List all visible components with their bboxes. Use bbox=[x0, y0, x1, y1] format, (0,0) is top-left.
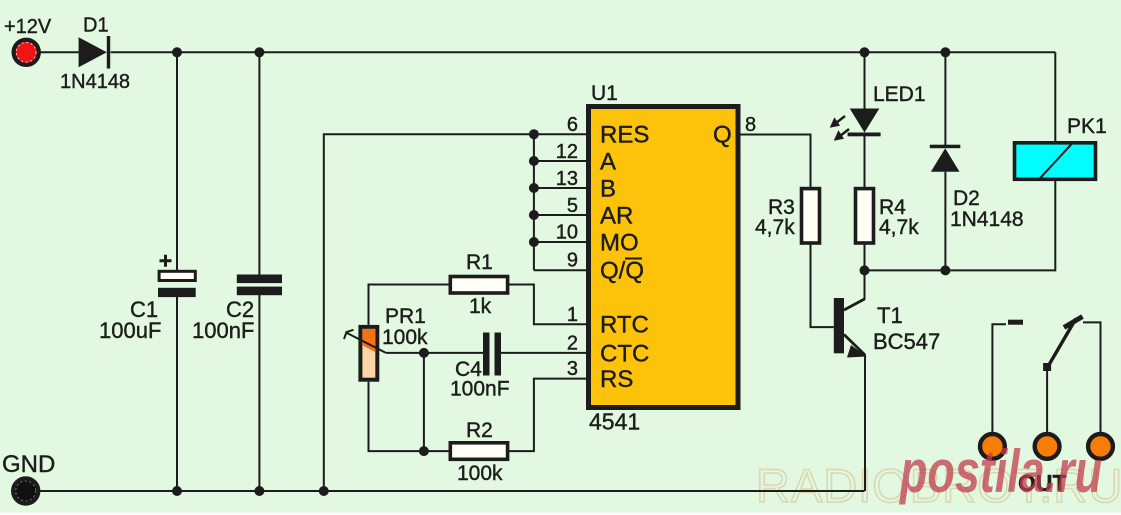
wire emitter bbox=[844, 335, 865, 492]
wire C2 bottom bbox=[258, 295, 260, 491]
resistor R2 bbox=[450, 443, 507, 460]
svg-text:10: 10 bbox=[556, 222, 578, 244]
wire LED to R4 bbox=[864, 136, 866, 189]
wire R4 bottom to node bbox=[864, 245, 866, 271]
resistor R1 bbox=[450, 277, 507, 294]
svg-text:+12V: +12V bbox=[4, 16, 52, 38]
svg-text:LED1: LED1 bbox=[873, 83, 926, 106]
junction node top D2 bbox=[940, 47, 950, 57]
svg-text:1k: 1k bbox=[469, 295, 492, 318]
svg-text:3: 3 bbox=[567, 358, 578, 380]
junction node D2 bottom bbox=[940, 265, 950, 275]
junction node collector bbox=[860, 265, 870, 275]
wire C2 top bbox=[258, 52, 260, 275]
svg-text:D1: D1 bbox=[83, 15, 109, 37]
wire pin13 stub bbox=[534, 187, 586, 189]
transistor T1 bbox=[834, 298, 867, 358]
wire ground rail bbox=[26, 490, 865, 492]
wire collector bbox=[844, 270, 865, 310]
wire left vertical to pin6 bbox=[324, 134, 586, 491]
svg-text:4,7k: 4,7k bbox=[879, 216, 919, 239]
svg-text:A: A bbox=[600, 149, 616, 176]
bottom white strip bbox=[0, 513, 1121, 515]
potentiometer PR1 bbox=[344, 327, 386, 380]
wire D2 top bbox=[944, 52, 946, 145]
wire pin8 to R3 bbox=[741, 135, 811, 189]
resistor R4 bbox=[856, 189, 874, 243]
junction node bus pin6 bbox=[529, 129, 539, 139]
relay PK1 bbox=[1015, 143, 1096, 180]
svg-text:Q/Q: Q/Q bbox=[600, 258, 644, 285]
svg-text:4,7k: 4,7k bbox=[755, 216, 795, 239]
svg-text:BC547: BC547 bbox=[873, 329, 940, 354]
svg-text:8: 8 bbox=[745, 114, 756, 136]
svg-text:RTC: RTC bbox=[600, 312, 649, 339]
svg-text:T1: T1 bbox=[877, 303, 903, 328]
svg-text:1N4148: 1N4148 bbox=[950, 208, 1024, 231]
wire PK1 bottom to node row bbox=[865, 181, 1056, 270]
svg-text:12: 12 bbox=[556, 141, 578, 163]
wire R3 bottom to base bbox=[811, 243, 834, 327]
junction node gnd left vertical bbox=[319, 486, 329, 496]
junction node gnd C2 bbox=[254, 486, 264, 496]
diode D2 bbox=[930, 145, 961, 172]
svg-text:R1: R1 bbox=[466, 251, 493, 274]
wire C1 top bbox=[176, 52, 178, 270]
wire input bus vertical bbox=[533, 134, 535, 270]
IC U1 4541 bbox=[589, 107, 739, 408]
svg-text:1: 1 bbox=[567, 304, 578, 326]
svg-text:MO: MO bbox=[600, 230, 639, 257]
junction node bus pin12 bbox=[529, 156, 539, 166]
svg-text:100k: 100k bbox=[382, 326, 428, 349]
svg-text:B: B bbox=[600, 176, 616, 203]
junction node wiper bbox=[419, 348, 429, 358]
svg-text:AR: AR bbox=[600, 203, 633, 230]
wire C4 right to pin2 bbox=[501, 352, 586, 354]
svg-text:postila.ru: postila.ru bbox=[899, 438, 1102, 505]
terminal OUT left bbox=[980, 434, 1005, 459]
wire PR1 bottom to R2 bbox=[369, 382, 451, 451]
switch contact right bbox=[1064, 317, 1083, 328]
svg-text:R2: R2 bbox=[466, 419, 493, 442]
terminal OUT right bbox=[1088, 434, 1113, 459]
capacitor C2 bbox=[237, 275, 282, 296]
wire pin12 stub bbox=[534, 160, 586, 162]
switch lever bbox=[1043, 319, 1076, 372]
svg-text:GND: GND bbox=[2, 451, 55, 478]
svg-text:13: 13 bbox=[556, 168, 578, 190]
wire pin9 stub bbox=[534, 269, 586, 271]
terminal GND bbox=[13, 478, 38, 503]
capacitor C1 bbox=[158, 255, 196, 297]
svg-text:100k: 100k bbox=[457, 462, 503, 485]
wire top rail after D1 bbox=[111, 51, 1056, 53]
junction node top C2 bbox=[254, 47, 264, 57]
terminal +12V bbox=[14, 40, 39, 65]
svg-text:CTC: CTC bbox=[600, 341, 649, 368]
svg-text:RES: RES bbox=[600, 122, 649, 149]
terminal OUT middle bbox=[1035, 434, 1060, 459]
svg-text:RS: RS bbox=[600, 366, 633, 393]
wire OUT left terminal bbox=[992, 324, 1006, 433]
wire R2 right to pin3 bbox=[507, 379, 586, 452]
svg-text:100uF: 100uF bbox=[99, 318, 161, 343]
svg-text:1N4148: 1N4148 bbox=[60, 71, 130, 93]
wire PR1 top to R1 left bbox=[369, 285, 451, 325]
wire pin5 stub bbox=[534, 214, 586, 216]
switch contact left bbox=[1008, 320, 1023, 325]
svg-text:Q: Q bbox=[713, 122, 732, 149]
svg-text:U1: U1 bbox=[591, 82, 618, 105]
wire PK1 top drop bbox=[1054, 52, 1056, 141]
resistor R3 bbox=[802, 189, 820, 243]
capacitor C4 bbox=[483, 333, 501, 376]
svg-text:9: 9 bbox=[567, 250, 578, 272]
wire pin10 stub bbox=[534, 241, 586, 243]
wire wiper to C4 bbox=[386, 352, 483, 354]
wire C1 bottom bbox=[176, 297, 178, 492]
svg-text:100nF: 100nF bbox=[192, 318, 254, 343]
svg-text:4541: 4541 bbox=[589, 409, 640, 435]
junction node bus pin5 bbox=[529, 210, 539, 220]
wire OUT right terminal bbox=[1083, 322, 1101, 433]
wire R1 right to pin1 bbox=[508, 285, 586, 325]
wire +12V rail top bbox=[40, 51, 79, 53]
wire D2 bottom bbox=[944, 172, 946, 271]
diode D1 bbox=[79, 36, 111, 69]
junction node top C1 bbox=[172, 47, 182, 57]
svg-text:D2: D2 bbox=[953, 187, 980, 210]
wire wiper node down bbox=[423, 353, 425, 451]
LED LED1 bbox=[830, 109, 881, 141]
wire LED branch top bbox=[864, 52, 866, 108]
svg-text:5: 5 bbox=[567, 195, 578, 217]
svg-text:PR1: PR1 bbox=[385, 305, 426, 328]
svg-text:PK1: PK1 bbox=[1067, 115, 1107, 138]
junction node bus pin10 bbox=[529, 237, 539, 247]
junction node gnd C1 bbox=[172, 486, 182, 496]
svg-text:2: 2 bbox=[567, 333, 578, 355]
svg-text:6: 6 bbox=[567, 114, 578, 136]
svg-text:100nF: 100nF bbox=[450, 378, 510, 401]
junction node bus pin13 bbox=[529, 183, 539, 193]
pin name Q/Qbar bbox=[600, 258, 644, 285]
junction node R2 left bbox=[419, 446, 429, 456]
junction node top LED bbox=[860, 47, 870, 57]
wire OUT middle terminal bbox=[1046, 367, 1048, 434]
